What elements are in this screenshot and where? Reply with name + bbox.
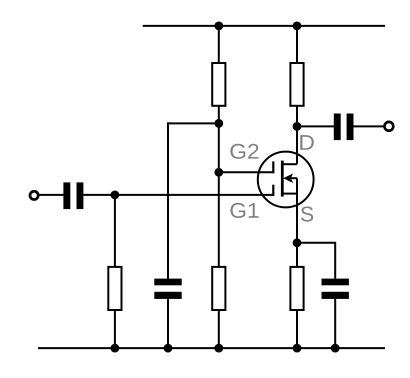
resistor R5: [290, 267, 303, 310]
wire input terminal to C1: [38, 194, 63, 196]
junction D node: [293, 122, 302, 131]
capacitor C3 left plate: [334, 114, 341, 141]
wire C3 to output terminal: [354, 125, 385, 127]
wire D node to C3: [297, 125, 334, 127]
junction S node: [293, 238, 302, 247]
junction ground C2: [164, 344, 173, 353]
junction rail R4: [293, 22, 302, 31]
resistor R4: [290, 63, 303, 106]
transistor Q1 source stub: [282, 193, 297, 195]
wire C4 to ground rail: [334, 299, 336, 348]
resistor R1: [212, 63, 225, 106]
wire G1 input line: [83, 194, 273, 196]
wire R3 to ground rail: [114, 310, 116, 348]
wire G2 node left: [167, 122, 219, 124]
pin label D: [300, 135, 313, 150]
wire input node to R3: [114, 195, 116, 267]
junction rail R1: [214, 22, 223, 31]
wire bottom ground rail: [38, 347, 385, 349]
wire R4 to drain: [296, 106, 298, 164]
junction ground C4: [331, 344, 340, 353]
transistor Q1 channel: [281, 161, 284, 197]
transistor Q1 gate1 electrode: [272, 185, 274, 196]
transistor Q1 gate2 electrode: [272, 161, 274, 173]
transistor Q1 substrate arrow: [283, 173, 293, 183]
junction ground R3: [111, 344, 120, 353]
capacitor C2 bottom plate: [154, 292, 181, 299]
junction G2 divider node: [214, 119, 223, 128]
wire S node to C4: [297, 243, 335, 279]
junction G1 input node: [111, 191, 120, 200]
junction ground R5: [293, 344, 302, 353]
wire R2 to ground rail: [218, 310, 220, 348]
wire R1 to R2: [218, 106, 220, 267]
wire C2 to ground rail: [167, 299, 169, 348]
input terminal: [30, 191, 38, 199]
pin label G1: [230, 203, 258, 218]
wire rail to R1: [218, 26, 220, 63]
wire source to R5: [296, 178, 298, 267]
capacitor C4 top plate: [322, 279, 349, 286]
capacitor C4 bottom plate: [322, 292, 349, 299]
transistor Q1 substrate lead: [289, 177, 297, 179]
transistor Q1 drain stub: [282, 163, 297, 165]
transistor Q1 envelope: [258, 152, 314, 208]
capacitor C1 left plate: [63, 182, 70, 209]
output terminal: [385, 122, 394, 131]
capacitor C2 top plate: [154, 279, 181, 286]
capacitor C1 right plate: [77, 182, 84, 209]
wire down to C2: [167, 122, 169, 278]
capacitor C3 right plate: [347, 114, 354, 141]
junction ground R2: [214, 344, 223, 353]
wire G2 lead: [219, 171, 273, 173]
pin label S: [301, 207, 313, 222]
wire top supply rail: [143, 25, 385, 27]
resistor R2: [212, 267, 225, 310]
junction G2 lead node: [214, 168, 223, 177]
wire rail to R4: [296, 26, 298, 63]
wire R5 to ground rail: [296, 310, 298, 348]
resistor R3: [108, 267, 121, 310]
pin label G2: [230, 144, 258, 159]
